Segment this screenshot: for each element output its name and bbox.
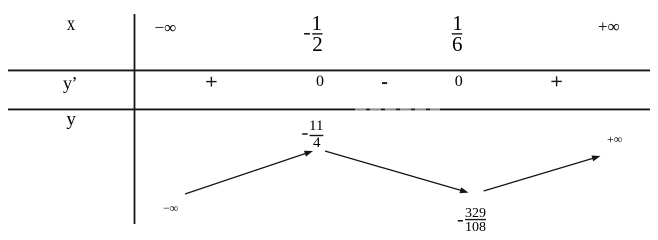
plus sign 1 (y' row) — [206, 77, 216, 87]
zero 2 (y' row) — [455, 74, 463, 90]
denominator 4 of -11/4 — [313, 136, 321, 151]
horizontal line 1 (below x row) — [8, 69, 650, 71]
header x — [67, 14, 75, 34]
fraction bar of 1/6 — [452, 33, 462, 35]
fraction bar of -329/108 — [465, 219, 486, 221]
numerator 1 of -1/2 — [312, 13, 323, 34]
fraction bar of -1/2 — [312, 33, 322, 35]
arrow 1: rising from -inf to -11/4 — [185, 151, 313, 194]
-infinity (x row) — [155, 19, 177, 36]
faint watermark dashes on line 2 — [355, 108, 440, 110]
minus sign (y' row) — [382, 82, 387, 84]
vertical header separator line — [134, 14, 136, 224]
minus of -11/4 (y row) — [302, 133, 308, 135]
minus of -1/2 (x row) — [304, 33, 310, 35]
arrow 3: rising from -329/108 to +inf — [484, 156, 601, 192]
+infinity (x row) — [598, 18, 620, 35]
-infinity (y row, lower left) — [163, 202, 178, 214]
+infinity (y row) — [607, 133, 622, 145]
plus sign 2 (y' row) — [551, 76, 561, 86]
denominator 2 of -1/2 — [312, 34, 323, 55]
zero 1 (y' row) — [316, 74, 324, 90]
numerator 329 of -329/108 — [465, 207, 486, 221]
header y' — [63, 74, 77, 92]
horizontal line 2 (below y' row) — [8, 108, 650, 110]
fraction bar of -11/4 — [310, 135, 324, 137]
denominator 108 of -329/108 — [465, 221, 486, 235]
arrow 2: falling from -11/4 to -329/108 — [325, 151, 469, 193]
denominator 6 of 1/6 — [452, 34, 463, 55]
minus of -329/108 (y row) — [458, 220, 463, 222]
header y — [66, 110, 76, 129]
numerator 11 of -11/4 — [309, 119, 323, 134]
numerator 1 of 1/6 — [452, 13, 463, 34]
